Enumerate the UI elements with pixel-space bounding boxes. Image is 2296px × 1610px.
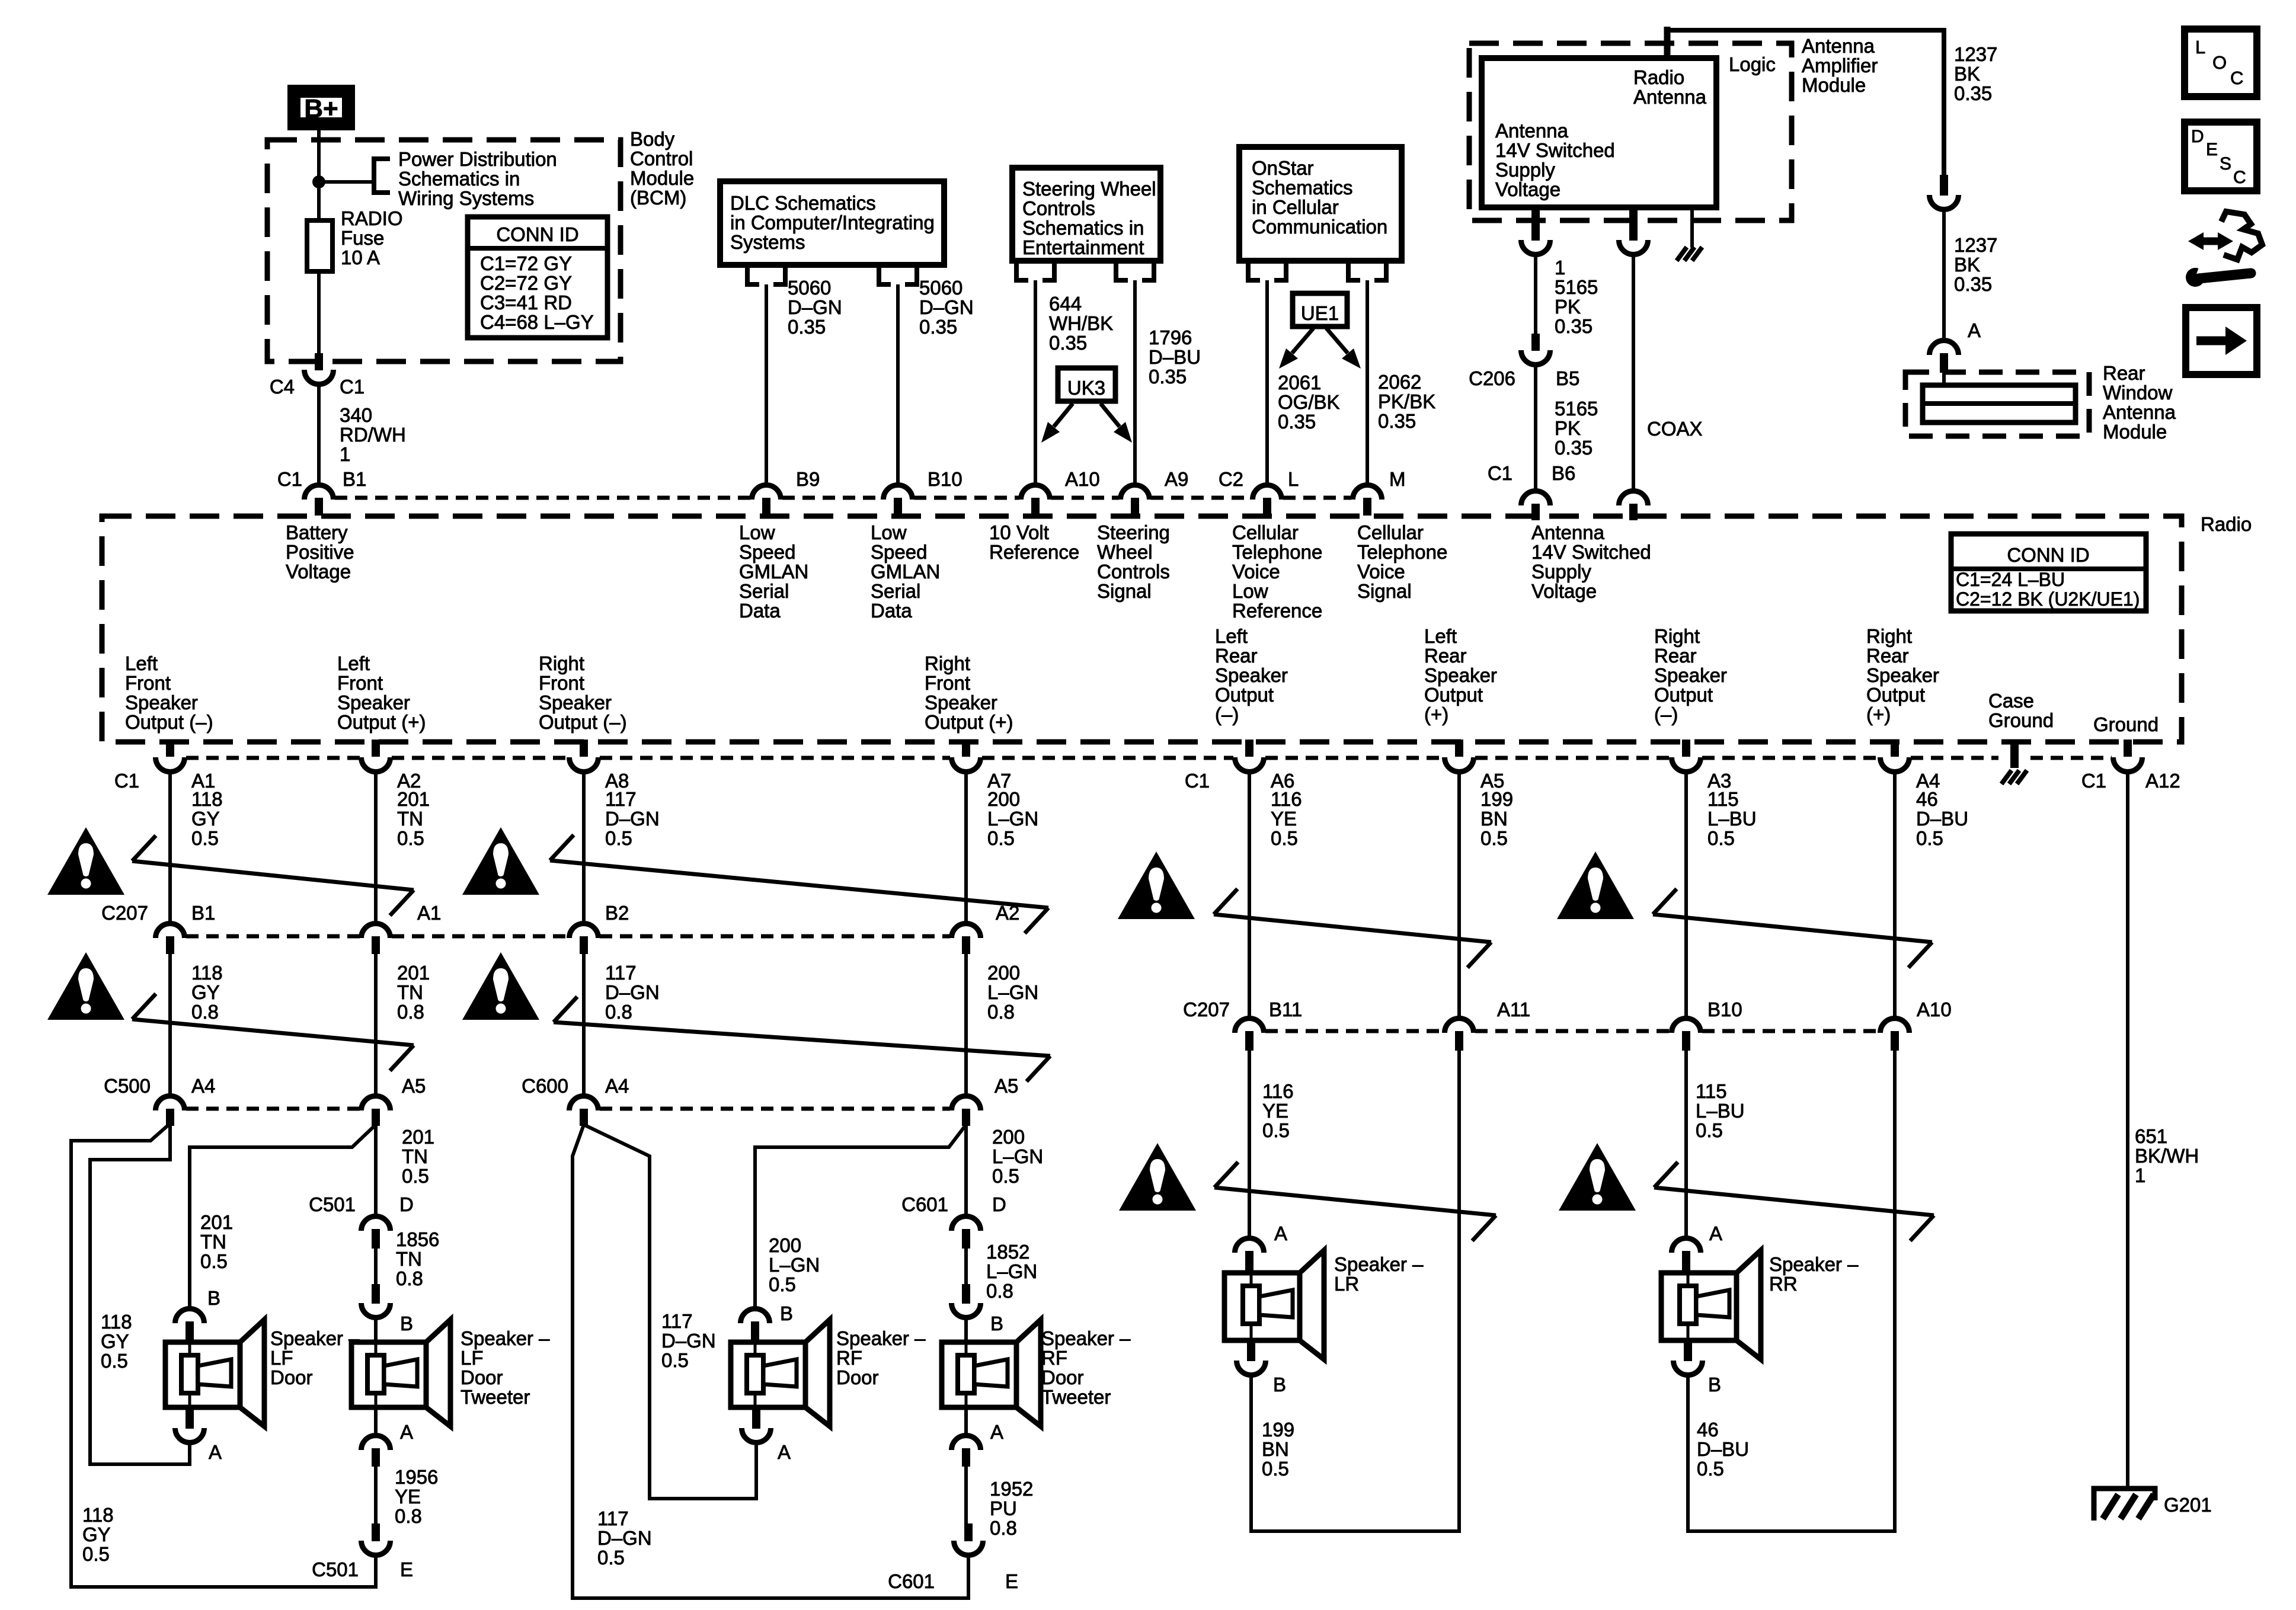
- junction dot: [312, 175, 325, 188]
- svg-text:Door: Door: [270, 1366, 313, 1388]
- dotted line C600: [600, 1107, 950, 1111]
- svg-text:Low: Low: [871, 521, 907, 543]
- svg-text:2061: 2061: [1278, 372, 1321, 393]
- box UK3 RPO: [1058, 368, 1115, 401]
- svg-text:0.5: 0.5: [1262, 1119, 1290, 1141]
- svg-text:C1=24 L–BU: C1=24 L–BU: [1956, 569, 2065, 590]
- svg-text:YE: YE: [1262, 1100, 1288, 1122]
- svg-text:0.5: 0.5: [82, 1543, 110, 1565]
- label 118 GY 0.5 bottom left: [82, 1504, 114, 1565]
- twisted pair marker rear lower left: [1214, 1162, 1496, 1241]
- wire 1956 YE: [374, 1467, 378, 1523]
- connector row C500C600 arc x634: [362, 1096, 391, 1110]
- svg-text:C500: C500: [104, 1075, 151, 1097]
- connector row C500C600 arc x1630: [952, 1096, 981, 1110]
- connector RF door B arc: [741, 1309, 770, 1324]
- svg-text:115: 115: [1707, 788, 1739, 810]
- svg-text:A: A: [778, 1441, 791, 1463]
- svg-text:D–GN: D–GN: [788, 296, 842, 318]
- svg-text:Telephone: Telephone: [1357, 541, 1447, 563]
- wire LR speaker feed: [1248, 1051, 1251, 1237]
- wire LF 201 TN down: [374, 1125, 378, 1215]
- connector RF tweeter A stub: [962, 1448, 970, 1467]
- svg-text:GMLAN: GMLAN: [871, 561, 940, 582]
- svg-text:Left: Left: [337, 652, 370, 674]
- svg-text:Communication: Communication: [1252, 216, 1387, 238]
- svg-text:Speaker –: Speaker –: [1769, 1253, 1859, 1275]
- svg-text:A10: A10: [1065, 468, 1100, 490]
- svg-text:116: 116: [1262, 1080, 1294, 1102]
- svg-text:Module: Module: [1802, 74, 1866, 96]
- twisted pair marker front upper left: [132, 836, 414, 916]
- svg-text:0.5: 0.5: [987, 827, 1015, 849]
- svg-text:Data: Data: [739, 600, 781, 622]
- warning triangle rear right lower: [1559, 1143, 1636, 1211]
- leg A9 of steering box: [1116, 261, 1154, 280]
- svg-text:TN: TN: [397, 808, 423, 830]
- label circuit 116 YE 0.5: [1271, 788, 1302, 849]
- box OnStar Schematics: [1239, 147, 1402, 261]
- wire RR return loop: [1688, 1051, 1895, 1531]
- svg-text:Data: Data: [871, 600, 912, 622]
- svg-text:OnStar: OnStar: [1252, 157, 1314, 179]
- connector C207 front arc x287: [156, 924, 185, 939]
- connector RR A stub: [1682, 1251, 1690, 1273]
- connector C207 front arc x985: [570, 924, 599, 939]
- label Steering Wheel Controls Schematics in Entertainment: [1022, 178, 1156, 258]
- label Speaker LF Door Tweeter: [461, 1327, 550, 1408]
- svg-text:D–GN: D–GN: [605, 808, 660, 830]
- svg-text:L–GN: L–GN: [769, 1254, 820, 1276]
- battery feed symbol B+: [294, 91, 348, 124]
- label circuit 46 D–BU 0.5: [1916, 788, 1968, 849]
- svg-text:1: 1: [2135, 1164, 2145, 1186]
- connector LF tweeter A arc: [362, 1436, 391, 1451]
- svg-text:D–GN: D–GN: [661, 1330, 716, 1352]
- svg-text:0.8: 0.8: [396, 1267, 423, 1289]
- svg-text:Voltage: Voltage: [1531, 580, 1597, 602]
- svg-text:Voice: Voice: [1357, 561, 1405, 582]
- label circuit 117 0.8: [605, 962, 660, 1023]
- svg-text:0.5: 0.5: [1697, 1458, 1724, 1480]
- connector M stub: [1363, 498, 1371, 516]
- svg-text:Cellular: Cellular: [1232, 521, 1299, 543]
- label 2062 PK/BK 0.35: [1378, 371, 1435, 432]
- label 1956 YE 0.8: [395, 1466, 438, 1527]
- wire branch to power distribution ref: [319, 180, 374, 184]
- svg-text:118: 118: [101, 1311, 132, 1333]
- connector B10 arc: [884, 485, 913, 500]
- svg-text:C2=72 GY: C2=72 GY: [480, 272, 572, 294]
- svg-text:Left: Left: [1424, 625, 1457, 647]
- label 200 L-GN 0.5 at speaker B: [769, 1234, 820, 1295]
- wire logic to rear window antenna: [1667, 30, 1944, 175]
- svg-text:0.5: 0.5: [1916, 827, 1943, 849]
- wire LR return loop: [1251, 1051, 1459, 1531]
- svg-text:Front: Front: [539, 672, 584, 694]
- svg-text:Left: Left: [1215, 625, 1248, 647]
- wire coax from box: [1629, 207, 1638, 241]
- warning triangle rear right upper: [1557, 852, 1634, 919]
- wire 1237 BK lower: [1942, 211, 1946, 340]
- svg-text:Positive: Positive: [286, 541, 354, 563]
- svg-text:GY: GY: [191, 808, 220, 830]
- svg-text:Supply: Supply: [1495, 159, 1555, 181]
- svg-text:0.35: 0.35: [1278, 411, 1316, 433]
- svg-text:5060: 5060: [788, 277, 831, 299]
- label Rear Window Antenna Module: [2103, 362, 2176, 443]
- connector A rear window stub: [1940, 353, 1948, 373]
- label Antenna Amplifier Module: [1802, 35, 1878, 96]
- connector LR A arc: [1235, 1238, 1264, 1253]
- label Right Rear Speaker Output minus: [1654, 625, 1727, 725]
- svg-text:Radio: Radio: [2201, 513, 2252, 535]
- svg-text:C207: C207: [1183, 998, 1230, 1020]
- svg-text:Front: Front: [125, 672, 171, 694]
- svg-text:GMLAN: GMLAN: [739, 561, 808, 582]
- speaker RR: [1661, 1250, 1761, 1359]
- svg-text:0.35: 0.35: [1149, 366, 1187, 388]
- svg-text:GY: GY: [82, 1523, 111, 1545]
- svg-text:0.5: 0.5: [1707, 827, 1735, 849]
- label Speaker RF Door Tweeter: [1041, 1327, 1131, 1408]
- leg B9 of DLC box: [747, 265, 785, 284]
- connector C207 front stub x1630: [962, 936, 970, 954]
- wire 5060 D-GN second: [896, 284, 900, 484]
- connector row C500C600 stub x287: [166, 1109, 174, 1126]
- svg-text:5165: 5165: [1555, 276, 1598, 298]
- svg-text:0.35: 0.35: [788, 316, 826, 338]
- wire RF tweeter B to box: [964, 1319, 968, 1342]
- svg-text:Output: Output: [1866, 684, 1925, 706]
- label 117 D-GN 0.5 bottom: [597, 1507, 652, 1569]
- wire 2062 PK/BK: [1366, 280, 1369, 484]
- wire front x634 lower: [374, 954, 378, 1094]
- dashed box Body Control Module BCM: [267, 140, 621, 361]
- svg-text:Module: Module: [630, 167, 694, 189]
- connector inline on 1237 arc: [1930, 195, 1959, 209]
- svg-text:C1: C1: [2081, 770, 2106, 792]
- connector C207 rear stub x2845: [1682, 1031, 1690, 1051]
- svg-text:B: B: [400, 1313, 413, 1334]
- ground chassis case ground: [2001, 770, 2027, 784]
- warning triangle rear left upper: [1118, 852, 1195, 919]
- wire LF 118 GY to speaker A loop: [90, 1125, 190, 1464]
- svg-text:B10: B10: [928, 468, 962, 490]
- svg-text:5060: 5060: [919, 277, 962, 299]
- leg A10 of steering box: [1016, 261, 1054, 280]
- connector row C500C600 stub x1630: [962, 1109, 970, 1126]
- connector coax arc bottom: [1619, 491, 1648, 506]
- wire front x985 upper: [582, 774, 586, 922]
- wire LF 118 GY to tweeter loop: [71, 1124, 376, 1587]
- svg-text:Right: Right: [539, 652, 584, 674]
- connector row C500C600 arc x287: [156, 1096, 185, 1110]
- wire front x287 lower: [168, 954, 172, 1094]
- connector B9 arc: [752, 485, 781, 500]
- svg-text:1956: 1956: [395, 1466, 438, 1488]
- svg-text:1237: 1237: [1954, 43, 1997, 65]
- svg-text:B5: B5: [1556, 367, 1579, 389]
- warning triangle rear left lower: [1119, 1143, 1196, 1211]
- wire 1856 TN: [374, 1249, 378, 1284]
- svg-text:0.5: 0.5: [605, 827, 632, 849]
- svg-text:(BCM): (BCM): [630, 187, 686, 209]
- svg-text:WH/BK: WH/BK: [1049, 312, 1113, 334]
- wire antenna 14V supply from box: [1531, 207, 1540, 241]
- connector coax arc top: [1619, 240, 1648, 254]
- label 115 L-BU 0.5 lower: [1696, 1080, 1745, 1141]
- connector RF tweeter A arc: [952, 1436, 981, 1451]
- svg-text:Speed: Speed: [739, 541, 795, 563]
- speaker LF Door Tweeter: [351, 1320, 450, 1426]
- svg-text:Output: Output: [1424, 684, 1483, 706]
- svg-text:0.8: 0.8: [395, 1505, 422, 1527]
- svg-text:O: O: [2212, 52, 2227, 73]
- connector C207 rear stub x3197: [1891, 1031, 1899, 1051]
- svg-text:L–GN: L–GN: [987, 981, 1038, 1003]
- svg-text:Wiring Systems: Wiring Systems: [398, 187, 534, 209]
- ground symbol G201: [2094, 1489, 2155, 1521]
- connector C207 rear arc x2108: [1235, 1018, 1264, 1033]
- bracket power distribution reference: [374, 159, 390, 193]
- twisted pair marker front lower right: [554, 997, 1050, 1081]
- svg-text:D–BU: D–BU: [1149, 346, 1201, 368]
- connector B1 arc: [305, 485, 334, 500]
- svg-text:PK: PK: [1555, 417, 1581, 439]
- connector C207 front stub x287: [166, 936, 174, 954]
- svg-text:117: 117: [605, 962, 637, 984]
- wire 5165 PK upper: [1534, 256, 1537, 334]
- connector B1 stub: [315, 498, 323, 516]
- wire 5165 PK lower: [1534, 366, 1537, 489]
- svg-text:A: A: [990, 1421, 1003, 1443]
- label 1856 TN 0.8: [396, 1228, 439, 1289]
- svg-text:118: 118: [82, 1504, 114, 1526]
- speaker RF Door Tweeter: [942, 1320, 1041, 1426]
- wire front x287 upper: [168, 774, 172, 922]
- svg-text:200: 200: [769, 1234, 801, 1256]
- table CONN ID radio: [1951, 534, 2146, 611]
- svg-text:0.5: 0.5: [1696, 1119, 1723, 1141]
- svg-text:0.5: 0.5: [992, 1165, 1019, 1187]
- connector LF door A arc: [175, 1428, 204, 1443]
- connector RR B arc: [1674, 1361, 1703, 1375]
- svg-text:Serial: Serial: [871, 580, 920, 602]
- svg-text:C1: C1: [277, 468, 302, 490]
- icon box arrow: [2186, 308, 2257, 375]
- svg-text:1856: 1856: [396, 1228, 439, 1250]
- svg-text:Rear: Rear: [1424, 645, 1467, 667]
- connector row C500C600 stub x985: [580, 1109, 588, 1126]
- svg-text:0.5: 0.5: [191, 827, 219, 849]
- svg-text:C501: C501: [309, 1193, 356, 1215]
- svg-text:Speaker –: Speaker –: [461, 1327, 550, 1349]
- twisted pair marker rear upper right: [1653, 889, 1932, 968]
- label circuit 118 GY 0.5: [191, 788, 223, 849]
- connector RF door A arc: [742, 1428, 771, 1443]
- svg-text:S: S: [2220, 154, 2231, 174]
- svg-text:340: 340: [340, 404, 372, 426]
- svg-text:0.35: 0.35: [1954, 82, 1992, 104]
- connector C501-D arc: [362, 1216, 391, 1231]
- label OnStar Schematics in Cellular Communication: [1252, 157, 1387, 238]
- connector RF tweeter B arc: [952, 1303, 981, 1317]
- connector C207 rear stub x2108: [1245, 1031, 1253, 1051]
- svg-text:201: 201: [397, 788, 430, 810]
- svg-text:B+: B+: [304, 94, 338, 123]
- connector A8 stub at radio: [580, 740, 588, 757]
- svg-text:Speaker –: Speaker –: [270, 1327, 360, 1349]
- wire B+ to fuse: [317, 130, 321, 220]
- svg-text:Speaker: Speaker: [1654, 664, 1727, 686]
- connector L stub: [1263, 498, 1271, 516]
- label Antenna 14V Switched Supply Voltage inside box: [1495, 120, 1615, 200]
- connector LF tweeter B stub: [372, 1284, 380, 1304]
- svg-text:A: A: [1968, 319, 1981, 341]
- label Speaker RR: [1769, 1253, 1859, 1295]
- warning triangle front left lower: [47, 952, 124, 1020]
- svg-text:Speaker: Speaker: [1866, 664, 1939, 686]
- svg-text:117: 117: [661, 1310, 693, 1332]
- svg-text:UK3: UK3: [1067, 377, 1105, 399]
- arrow UE1 left: [1279, 328, 1313, 369]
- connector A12 arc at radio: [2113, 757, 2142, 772]
- svg-text:PK: PK: [1555, 296, 1581, 318]
- label Right Rear Speaker Output plus: [1866, 625, 1939, 725]
- connector A3 stub at radio: [1682, 740, 1690, 757]
- svg-text:DLC Schematics: DLC Schematics: [730, 192, 876, 214]
- svg-text:YE: YE: [395, 1486, 421, 1507]
- label 1 5165 PK 0.35: [1555, 257, 1598, 337]
- svg-text:115: 115: [1696, 1080, 1727, 1102]
- svg-text:Antenna: Antenna: [1802, 35, 1875, 57]
- svg-text:TN: TN: [402, 1145, 428, 1167]
- wire 1852 L-GN: [964, 1249, 968, 1284]
- connector LF tweeter A stub: [372, 1448, 380, 1467]
- svg-text:D: D: [992, 1193, 1006, 1215]
- svg-text:0.35: 0.35: [1049, 332, 1087, 354]
- svg-text:YE: YE: [1271, 808, 1297, 830]
- svg-text:Module: Module: [2103, 421, 2167, 443]
- svg-text:Telephone: Telephone: [1232, 541, 1322, 563]
- svg-text:Speaker –: Speaker –: [1041, 1327, 1131, 1349]
- svg-text:0.5: 0.5: [597, 1547, 625, 1569]
- svg-text:A: A: [1709, 1222, 1722, 1244]
- svg-text:Rear: Rear: [1866, 645, 1909, 667]
- svg-text:A: A: [400, 1421, 413, 1443]
- connector A8 arc at radio: [570, 757, 599, 772]
- dotted line C207 front: [186, 934, 950, 939]
- wire 340 RD/WH: [317, 385, 321, 484]
- svg-text:C207: C207: [101, 902, 148, 924]
- icon box LOC: [2185, 29, 2257, 97]
- connector antenna supply arc: [1521, 240, 1550, 254]
- svg-text:Output (+): Output (+): [925, 711, 1013, 733]
- twisted pair marker front upper right: [550, 835, 1048, 933]
- svg-text:E: E: [2206, 140, 2218, 159]
- svg-text:D–GN: D–GN: [597, 1527, 652, 1549]
- box Steering Wheel Controls: [1012, 168, 1160, 261]
- label Cellular Telephone Voice Signal: [1357, 521, 1447, 602]
- svg-text:Output: Output: [1215, 684, 1274, 706]
- svg-text:Door: Door: [836, 1366, 879, 1388]
- connector RF tweeter B stub: [962, 1284, 970, 1304]
- svg-text:117: 117: [605, 788, 637, 810]
- connector C206 stub: [1531, 334, 1540, 351]
- label Low Speed GMLAN Serial Data second: [871, 521, 940, 622]
- svg-text:Rear: Rear: [1654, 645, 1697, 667]
- connector A9 stub: [1131, 498, 1139, 516]
- label Right Front Speaker Output minus: [539, 652, 627, 733]
- label Battery Positive Voltage: [286, 521, 354, 582]
- svg-text:Low: Low: [1232, 580, 1268, 602]
- connector row C500C600 arc x985: [570, 1096, 599, 1110]
- connector LF door B arc: [175, 1309, 204, 1324]
- arrow UK3 right: [1101, 404, 1132, 443]
- svg-text:1: 1: [340, 443, 350, 465]
- svg-text:Right: Right: [925, 652, 970, 674]
- svg-text:0.8: 0.8: [990, 1517, 1017, 1539]
- svg-text:B10: B10: [1707, 998, 1742, 1020]
- svg-text:Cellular: Cellular: [1357, 521, 1424, 543]
- svg-text:1237: 1237: [1954, 234, 1997, 256]
- svg-text:GY: GY: [101, 1330, 129, 1352]
- wire rear x3197 upper: [1893, 774, 1897, 1017]
- label 1852 L-GN 0.8: [986, 1241, 1037, 1302]
- svg-text:D–BU: D–BU: [1916, 808, 1968, 830]
- svg-text:Speaker: Speaker: [539, 692, 612, 713]
- connector M arc: [1353, 485, 1382, 500]
- svg-text:0.35: 0.35: [1378, 410, 1416, 432]
- twisted pair marker front lower left: [132, 994, 414, 1071]
- wire RF 200 L-GN down: [964, 1125, 968, 1215]
- label 10 Volt Reference: [989, 521, 1079, 563]
- svg-text:201: 201: [200, 1211, 233, 1233]
- svg-text:Case: Case: [1988, 690, 2034, 712]
- svg-text:Antenna: Antenna: [1495, 120, 1569, 142]
- label Left Rear Speaker Output plus: [1424, 625, 1497, 725]
- connector A10 stub: [1031, 498, 1040, 516]
- svg-text:C2: C2: [1219, 468, 1243, 490]
- connector A1 stub at radio: [166, 740, 174, 757]
- table CONN ID BCM: [468, 217, 607, 338]
- svg-text:L: L: [1288, 468, 1299, 490]
- connector LF tweeter B arc: [362, 1303, 391, 1317]
- label circuit 201 0.8: [397, 962, 430, 1023]
- svg-text:LF: LF: [270, 1347, 293, 1369]
- connector C601-D stub: [962, 1229, 970, 1249]
- svg-text:A2: A2: [996, 902, 1019, 924]
- svg-text:in Cellular: in Cellular: [1252, 196, 1339, 218]
- svg-text:C1: C1: [114, 770, 139, 792]
- connector A12 stub at radio: [2124, 740, 2132, 757]
- rear window antenna element: [1923, 385, 2076, 422]
- svg-text:Fuse: Fuse: [341, 227, 384, 249]
- connector B9 stub: [762, 498, 770, 516]
- svg-text:LF: LF: [461, 1347, 484, 1369]
- wire fuse to BCM edge: [317, 271, 321, 353]
- svg-text:Low: Low: [739, 521, 775, 543]
- svg-text:BK: BK: [1954, 254, 1980, 276]
- connector LR B stub: [1247, 1340, 1255, 1361]
- svg-text:0.5: 0.5: [1262, 1458, 1289, 1480]
- svg-text:BN: BN: [1262, 1438, 1289, 1460]
- wire RF 117 D-GN to speaker A loop: [584, 1125, 756, 1499]
- connector C601-E arc: [954, 1541, 983, 1555]
- svg-text:C501: C501: [312, 1558, 359, 1580]
- icon wrench and arrow: [2186, 212, 2262, 287]
